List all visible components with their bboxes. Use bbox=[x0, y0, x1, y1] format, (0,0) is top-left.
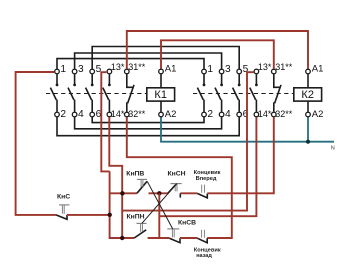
interlock diagonal KnPV-KnSV bbox=[147, 181, 173, 229]
svg-text:31**: 31** bbox=[275, 62, 293, 72]
contact pole К1:1-2 top terminal bbox=[55, 69, 60, 74]
coil К2 A2 lead bbox=[307, 101, 309, 112]
contact pole К1:5-6 lower stem bbox=[91, 100, 93, 112]
svg-text:14*: 14* bbox=[258, 109, 272, 119]
wire K1:13* seal feed (red riser) bbox=[101, 72, 109, 171]
contact pole К1:3-4 lower stem bbox=[74, 100, 76, 112]
coil К2 box bbox=[294, 88, 322, 101]
contact pole К1:1-2 bottom terminal bbox=[55, 112, 60, 117]
contact pole К1:13-14 top terminal bbox=[107, 69, 112, 74]
contact pole К1:3-4 moving blade bbox=[68, 88, 74, 100]
coil К2 terminal A2 bbox=[306, 112, 311, 117]
NC aux contact К1:31-32 moving blade bbox=[128, 85, 134, 103]
contact pole К1:13-14 lower stem bbox=[108, 100, 110, 112]
KnPV actuator bbox=[137, 178, 147, 180]
NC aux contact К1:31-32 top terminal bbox=[125, 69, 130, 74]
wire row-1 to K2:32** bbox=[207, 117, 273, 193]
wire phase bus L1 (K1:1 to K2:1) bbox=[57, 59, 204, 69]
svg-text:31**: 31** bbox=[128, 62, 146, 72]
svg-text:4: 4 bbox=[78, 109, 84, 120]
wire phase bus L3 (K1:5 to K2:5) bbox=[92, 47, 239, 69]
limit switch forward blade (NC) bbox=[198, 194, 208, 198]
wire neutral N from K1:A2 bbox=[161, 117, 334, 141]
wire K2:13* seal feed (red) bbox=[122, 72, 253, 210]
pushbutton KnPN blade (NO) bbox=[134, 230, 146, 238]
node J2 bbox=[120, 191, 124, 195]
wire K1:A1 to K2:31** (red) bbox=[161, 40, 274, 68]
contact pole К2:13-14 top terminal bbox=[254, 69, 259, 74]
KnS actuator bbox=[59, 204, 69, 206]
wire row1 to row2 tie bbox=[158, 193, 160, 238]
contact pole К2:3-4 top terminal bbox=[219, 69, 224, 74]
KnSV blade (NC) bbox=[169, 238, 180, 242]
svg-text:КнС: КнС bbox=[57, 193, 70, 200]
coil К1 terminal A1 bbox=[159, 69, 164, 74]
svg-text:14*: 14* bbox=[111, 109, 125, 119]
NC aux contact К1:31-32 fixed stem and seat bar bbox=[127, 74, 134, 87]
wire row-1 left segment bbox=[110, 192, 137, 194]
node row1/row2 tie bbox=[157, 191, 161, 195]
svg-text:3: 3 bbox=[78, 64, 84, 75]
wire K1:14* to interlock column (red) bbox=[109, 117, 122, 238]
coil К1 box bbox=[147, 88, 175, 101]
contact pole К1:3-4 bottom terminal bbox=[72, 112, 77, 117]
wire row-2 between KnPN and KnSV bbox=[148, 237, 170, 239]
svg-text:13*: 13* bbox=[258, 62, 272, 72]
node J4 bbox=[120, 236, 124, 240]
contact pole К1:5-6 top terminal bbox=[90, 69, 95, 74]
limit switch back blade (NC) bbox=[198, 238, 208, 242]
wire row-2 between KnSV and limit switch back bbox=[180, 237, 198, 239]
KnPN actuator bbox=[137, 222, 147, 224]
contact pole К2:13-14 bottom terminal bbox=[254, 112, 259, 117]
contact pole К1:5-6 bottom terminal bbox=[90, 112, 95, 117]
contact pole К1:3-4 top terminal bbox=[72, 69, 77, 74]
wire phase bus L2 (K1:3 to K2:3) bbox=[75, 53, 222, 69]
contact pole К1:5-6 moving blade bbox=[86, 88, 92, 100]
contact pole К2:13-14 lower stem bbox=[255, 100, 257, 112]
svg-text:КнПН: КнПН bbox=[127, 213, 145, 220]
wire K2:14* to row tie (red) bbox=[159, 117, 256, 216]
contact pole К1:13-14 fixed stem bbox=[108, 74, 110, 84]
svg-text:Вперед: Вперед bbox=[196, 176, 217, 182]
contact pole К2:3-4 moving blade bbox=[215, 88, 221, 100]
NC aux contact К1:31-32 lower stem bbox=[126, 102, 128, 111]
svg-text:13*: 13* bbox=[111, 62, 125, 72]
contact pole К1:1-2 fixed stem bbox=[56, 74, 58, 84]
terminal labels К1 bbox=[60, 64, 101, 120]
svg-text:1: 1 bbox=[60, 64, 66, 75]
wire K1:31** to K2:A1 (red) bbox=[127, 31, 308, 69]
pushbutton KnSN blade (NO) bbox=[168, 184, 177, 194]
NC aux contact К2:31-32 moving blade bbox=[275, 85, 281, 103]
node J1 bbox=[108, 213, 112, 217]
stop button KnS blade (NC) bbox=[56, 215, 67, 219]
contact pole К2:5-6 fixed stem bbox=[238, 74, 240, 84]
svg-text:A2: A2 bbox=[165, 109, 177, 120]
svg-text:32**: 32** bbox=[128, 109, 146, 119]
node N junction bbox=[306, 140, 310, 144]
contact pole К2:1-2 fixed stem bbox=[203, 74, 205, 84]
contact pole К2:3-4 lower stem bbox=[221, 100, 223, 112]
svg-text:4: 4 bbox=[225, 109, 231, 120]
contact pole К1:1-2 lower stem bbox=[56, 100, 58, 112]
NC aux contact К1:31-32 bottom terminal bbox=[125, 112, 130, 117]
svg-text:назад: назад bbox=[196, 253, 212, 259]
NC aux contact К2:31-32 bottom terminal bbox=[272, 112, 277, 117]
contact pole К1:3-4 fixed stem bbox=[74, 74, 76, 84]
wire output bus (K1:2 to K2:6) bbox=[57, 117, 239, 135]
contact pole К2:5-6 bottom terminal bbox=[237, 112, 242, 117]
svg-text:A2: A2 bbox=[312, 109, 324, 120]
svg-text:2: 2 bbox=[60, 109, 66, 120]
KnSV actuator bbox=[167, 228, 179, 230]
wire K1:32** to limit switch back (red) bbox=[127, 117, 232, 238]
contact pole К2:13-14 moving blade bbox=[250, 88, 256, 100]
wire output bus (K1:6 to K2:2) bbox=[92, 117, 204, 122]
limit switch forward actuator bbox=[202, 185, 205, 193]
contact pole К2:13-14 fixed stem bbox=[255, 74, 257, 84]
svg-text:КнСН: КнСН bbox=[168, 170, 186, 177]
svg-text:КнСВ: КнСВ bbox=[178, 219, 196, 226]
contact pole К1:1-2 moving blade bbox=[50, 88, 56, 100]
contact pole К2:5-6 top terminal bbox=[237, 69, 242, 74]
svg-text:A1: A1 bbox=[312, 63, 324, 74]
wire phase tap to stop button KnS bbox=[16, 72, 56, 215]
contact pole К2:3-4 fixed stem bbox=[221, 74, 223, 84]
contact pole К2:1-2 lower stem bbox=[203, 100, 205, 112]
contact pole К2:1-2 bottom terminal bbox=[202, 112, 207, 117]
contact pole К2:1-2 top terminal bbox=[202, 69, 207, 74]
contact pole К1:13-14 moving blade bbox=[103, 88, 109, 100]
wire K2:A2 drop to N bbox=[307, 117, 309, 141]
wire row-1 between KnPV and KnSN bbox=[149, 192, 168, 194]
wire J1 riser / row-1 feed bbox=[110, 171, 135, 238]
wire row-1 between KnSN and forward limit switch bbox=[180, 192, 197, 194]
terminal labels К2 bbox=[207, 64, 248, 120]
wire KnS output to node J1 bbox=[67, 214, 110, 216]
NC aux contact К2:31-32 fixed stem and seat bar bbox=[274, 74, 281, 87]
KnSN actuator bbox=[171, 183, 182, 185]
contact pole К1:5-6 fixed stem bbox=[91, 74, 93, 84]
contact pole К2:1-2 moving blade bbox=[197, 88, 203, 100]
coil К2 terminal A1 bbox=[306, 69, 311, 74]
contact pole К2:5-6 moving blade bbox=[233, 88, 239, 100]
interlock diagonal KnSN-KnPN bbox=[142, 184, 177, 224]
svg-text:N: N bbox=[331, 145, 335, 151]
svg-text:A1: A1 bbox=[165, 63, 177, 74]
mechanical linkage dashed line К2 bbox=[193, 93, 294, 95]
svg-text:1: 1 bbox=[207, 64, 213, 75]
svg-text:К1: К1 bbox=[154, 89, 167, 101]
coil К1 A2 lead bbox=[160, 101, 162, 112]
svg-text:2: 2 bbox=[207, 109, 213, 120]
pushbutton KnPV blade (NO) bbox=[137, 181, 147, 193]
coil К2 A1 lead bbox=[307, 74, 309, 88]
svg-text:32**: 32** bbox=[275, 109, 293, 119]
svg-text:3: 3 bbox=[225, 64, 231, 75]
NC aux contact К2:31-32 lower stem bbox=[273, 102, 275, 111]
svg-text:К2: К2 bbox=[301, 89, 314, 101]
contact pole К1:13-14 bottom terminal bbox=[107, 112, 112, 117]
contact pole К2:3-4 bottom terminal bbox=[219, 112, 224, 117]
wire output bus (K1:4 to K2:4) bbox=[75, 117, 222, 129]
coil К1 terminal A2 bbox=[159, 112, 164, 117]
limit switch back actuator bbox=[202, 230, 205, 238]
mechanical linkage dashed line К1 bbox=[46, 93, 147, 95]
svg-text:КнПВ: КнПВ bbox=[126, 170, 144, 177]
NC aux contact К2:31-32 top terminal bbox=[272, 69, 277, 74]
KnSN seat bar bbox=[179, 193, 181, 197]
coil К1 A1 lead bbox=[160, 74, 162, 88]
contact pole К2:5-6 lower stem bbox=[238, 100, 240, 112]
